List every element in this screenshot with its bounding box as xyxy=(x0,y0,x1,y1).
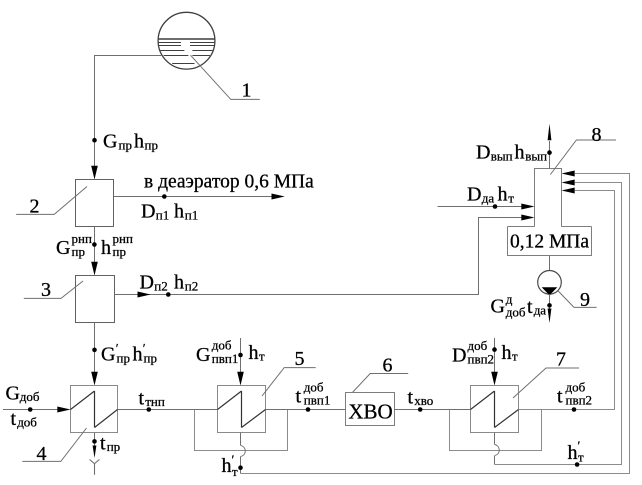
heater 7 (surface heater) xyxy=(471,386,519,433)
deaerator column 8 xyxy=(535,169,562,227)
node dot hт' (heater 5) xyxy=(238,465,243,470)
wire expander 3 to heater 4 xyxy=(94,323,96,374)
svg-text:1: 1 xyxy=(242,79,252,101)
heater 4 (surface heater) xyxy=(71,386,118,433)
wire Dда into column xyxy=(438,206,523,208)
arrow into heater 4 xyxy=(91,372,98,386)
leader line and label 4 xyxy=(22,428,86,465)
svg-text:4: 4 xyxy=(37,443,47,465)
node dot tпвп2 xyxy=(572,407,577,412)
arrow Dп2 into deaerator column xyxy=(521,215,534,221)
svg-text:ХВО: ХВО xyxy=(348,400,392,424)
svg-text:8: 8 xyxy=(592,124,602,146)
arrow into heater 7 xyxy=(491,372,498,386)
svg-text:2: 2 xyxy=(30,195,40,217)
svg-text:0,12 МПа: 0,12 МПа xyxy=(510,232,589,253)
wire heater 5 to XBO xyxy=(266,409,346,411)
wire heater 7 condensate to deaerator middle arrow xyxy=(495,183,622,465)
svg-text:Gдоб: Gдоб xyxy=(6,383,40,405)
svg-text:6: 6 xyxy=(383,354,393,376)
bypass around heater 5 xyxy=(195,410,288,451)
leader line and label 5 xyxy=(262,348,316,396)
leader line and label 8 xyxy=(550,124,616,175)
wire Gдоб inlet to heater 4 xyxy=(3,409,58,411)
node dot Dпвп2 xyxy=(492,347,497,352)
node dot tтнп xyxy=(147,407,152,412)
node dot Gпр xyxy=(92,138,97,143)
svg-text:h′т: h′т xyxy=(568,438,585,465)
wire drum to left elbow xyxy=(94,55,162,57)
wire heater 4 condensate drain xyxy=(94,433,96,447)
wire tank to pump 9 xyxy=(549,256,551,271)
svg-text:G′прh′пр: G′прh′пр xyxy=(101,341,157,366)
leader line and label 9 xyxy=(558,289,597,311)
svg-text:hт: hт xyxy=(249,342,266,364)
node dot hт' (heater 7) xyxy=(575,462,580,467)
node dot G'пр xyxy=(92,348,97,353)
wire heater 4 to heater 5 xyxy=(118,409,218,411)
wire steam supply into heater 7 xyxy=(494,338,496,373)
node dot Gдоб xyxy=(28,407,33,412)
wire heater 5 condensate to deaerator top arrow xyxy=(241,174,630,474)
svg-text:7: 7 xyxy=(556,349,566,371)
heater 5 condensate with hop xyxy=(241,433,246,474)
wire vertical blowdown line to expander 2 xyxy=(94,55,96,168)
deaerator tank 0,12 MPa xyxy=(508,227,592,256)
arrow condensate down xyxy=(93,446,97,459)
node dot tхво xyxy=(418,407,423,412)
arrow into expander 3 xyxy=(91,262,98,276)
node dot Dп1 xyxy=(162,194,167,199)
svg-text:9: 9 xyxy=(580,289,590,311)
expander (расширитель) 2 xyxy=(76,180,114,227)
leader line and label 6 xyxy=(353,354,409,392)
arrow Dда into column xyxy=(521,204,534,210)
node dot tпвп1 xyxy=(306,407,311,412)
node dot Dп2 xyxy=(166,292,171,297)
XBO water treatment box 6 xyxy=(346,393,395,426)
funnel drain symbol xyxy=(90,460,100,475)
drum (boiler drum) 1 xyxy=(158,12,215,69)
arrow heater7 condensate into column xyxy=(562,180,575,186)
leader line and label 1 xyxy=(191,55,260,101)
svg-text:Gпрhпр: Gпрhпр xyxy=(103,131,158,153)
svg-text:tпр: tпр xyxy=(100,433,120,455)
vent wire Dвып from column top xyxy=(549,141,551,169)
svg-text:tдобпвп2: tдобпвп2 xyxy=(557,380,592,408)
node dot tпр xyxy=(92,439,97,444)
leader line and label 2 xyxy=(16,187,87,218)
wire steam output of 2 to deaerator 0.6 MPa xyxy=(114,196,273,198)
arrow heater5 condensate into column xyxy=(562,171,575,177)
arrow tпвп2 into column xyxy=(562,188,575,194)
svg-text:Gдобпвп1: Gдобпвп1 xyxy=(196,338,238,367)
svg-text:hрнппр: hрнппр xyxy=(101,231,133,259)
svg-text:Dдобпвп2: Dдобпвп2 xyxy=(452,338,494,367)
wire XBO to heater 7 xyxy=(395,409,471,411)
svg-text:Dвыпhвып: Dвыпhвып xyxy=(476,142,547,164)
node dot Gпр рнп xyxy=(92,242,97,247)
expander (расширитель) 3 xyxy=(76,276,115,323)
svg-text:hт: hт xyxy=(502,342,519,364)
arrow to deaerator 0.6 MPa xyxy=(272,194,285,200)
svg-text:Dп1hп1: Dп1hп1 xyxy=(141,201,198,223)
heater 5 (surface heater) xyxy=(218,386,266,433)
arrow into heater 5 xyxy=(237,372,244,386)
wire steam supply into heater 5 xyxy=(240,338,242,373)
svg-text:Gрнппр: Gрнппр xyxy=(56,231,92,259)
arrow pump outlet down xyxy=(548,309,552,324)
wire heater 7 outlet to riser xyxy=(519,191,615,410)
svg-text:tхво: tхво xyxy=(408,387,434,409)
arrow Gдоб into heater 4 xyxy=(57,407,70,413)
svg-text:в деаэратор 0,6 МПа: в деаэратор 0,6 МПа xyxy=(144,172,314,193)
wire expander 2 to expander 3 xyxy=(94,227,96,265)
pump outlet wire xyxy=(549,294,551,309)
svg-text:3: 3 xyxy=(41,279,51,301)
bypass around heater 7 xyxy=(450,410,542,451)
svg-text:Gддобtда: Gддобtда xyxy=(491,292,547,320)
svg-text:Dп2hп2: Dп2hп2 xyxy=(140,272,199,294)
svg-text:tдобпвп1: tдобпвп1 xyxy=(296,380,331,408)
svg-text:h′т: h′т xyxy=(222,452,239,479)
node dot Dвып xyxy=(547,150,552,155)
heater 7 condensate with hop xyxy=(495,433,500,465)
svg-text:5: 5 xyxy=(295,348,305,370)
svg-text:tтнп: tтнп xyxy=(139,388,165,410)
leader line and label 7 xyxy=(513,349,579,399)
pump 9 xyxy=(538,271,562,296)
node dot Gпвп1 xyxy=(238,353,243,358)
svg-text:tдоб: tдоб xyxy=(11,408,38,430)
node dot Dда xyxy=(493,204,498,209)
wire Dп2 from expander 3 to deaerator column xyxy=(115,218,523,295)
arrow into expander 2 xyxy=(91,166,98,180)
node dot Gдоб д xyxy=(547,303,552,308)
arrow on Dп2 wire xyxy=(138,292,151,298)
leader line and label 3 xyxy=(24,279,83,301)
arrow vent up xyxy=(548,124,552,141)
svg-text:Dдаhт: Dдаhт xyxy=(467,184,514,206)
